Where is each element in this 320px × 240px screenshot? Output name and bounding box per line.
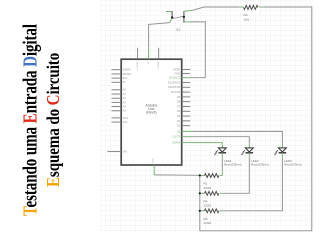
svg-text:Red (633nm): Red (633nm) xyxy=(251,162,269,166)
svg-text:RESET2: RESET2 xyxy=(136,62,138,71)
wire: S1 output down to U1 digital input pin xyxy=(190,22,205,78)
wire: R6 right lead down right side and along bottom to GND rail xyxy=(200,7,312,231)
svg-text:D10/SS: D10/SS xyxy=(171,90,180,94)
Arduino top pin labels (inside, rotated) xyxy=(136,62,160,71)
node: switch common xyxy=(171,16,173,18)
wire: LED2 cathode down and left to R4 right lead xyxy=(223,158,249,194)
title line 2 xyxy=(46,53,64,187)
Arduino right pin labels xyxy=(168,67,181,144)
svg-text:D6: D6 xyxy=(177,109,181,113)
wire: S1 output to R6 left lead xyxy=(193,7,240,10)
lever xyxy=(172,16,184,18)
wire: LED3 cathode down and left to R5 right lead xyxy=(223,158,282,211)
svg-text:AREF: AREF xyxy=(173,67,181,71)
switch S1 (SPDT) xyxy=(166,10,192,32)
wire: U1 pin to LED2 anode xyxy=(193,137,249,144)
wire: U1 pin to LED1 anode xyxy=(190,143,222,148)
right post top lead xyxy=(184,10,193,11)
svg-text:D9: D9 xyxy=(177,95,181,99)
unused throw lead xyxy=(166,11,172,13)
node: rail junction at R5 xyxy=(199,210,201,212)
svg-text:AREF2: AREF2 xyxy=(157,62,160,70)
node: switch output xyxy=(183,16,185,18)
svg-text:D3: D3 xyxy=(177,124,181,128)
svg-text:SCL: SCL xyxy=(123,120,129,124)
Arduino left pin labels xyxy=(123,68,132,154)
LED3 xyxy=(274,143,302,166)
resistor R1 xyxy=(200,174,223,190)
svg-text:D0/RX: D0/RX xyxy=(172,141,180,145)
left post xyxy=(171,11,173,17)
right post xyxy=(183,11,185,23)
svg-text:(Rev3): (Rev3) xyxy=(146,110,156,114)
LED1 xyxy=(214,148,242,167)
wire: LED1 cathode to R1 right lead xyxy=(221,158,223,176)
wire: U1 GND pin to GND rail xyxy=(154,174,200,176)
left post lead (to wire) xyxy=(170,18,172,23)
svg-text:220Ω: 220Ω xyxy=(204,186,212,190)
svg-text:RESET: RESET xyxy=(123,72,132,76)
svg-text:IOREF: IOREF xyxy=(123,68,132,72)
svg-text:D5: D5 xyxy=(177,114,181,118)
svg-text:D11/MOSI: D11/MOSI xyxy=(168,85,181,89)
svg-text:5V: 5V xyxy=(123,80,126,84)
svg-text:D2: D2 xyxy=(177,129,181,133)
svg-text:3V3: 3V3 xyxy=(123,76,128,80)
resistor R4 xyxy=(200,191,223,207)
right post bottom lead xyxy=(184,21,191,23)
svg-text:D12/MISO: D12/MISO xyxy=(168,80,181,84)
wire: U1 pin to LED3 anode xyxy=(193,131,282,143)
svg-text:Red (633nm): Red (633nm) xyxy=(224,162,242,166)
svg-text:220Ω: 220Ω xyxy=(204,221,212,225)
svg-text:A4: A4 xyxy=(123,105,127,109)
svg-text:VIN: VIN xyxy=(123,150,128,154)
svg-text:A0: A0 xyxy=(123,88,127,92)
resistor R6 xyxy=(239,5,263,21)
svg-text:D7: D7 xyxy=(177,104,181,108)
svg-text:D13/SCK: D13/SCK xyxy=(169,76,180,80)
Arduino connected right pins (green leads) xyxy=(182,78,193,143)
svg-text:1kΩ: 1kΩ xyxy=(244,17,250,21)
wire: GND rail vertical xyxy=(199,175,201,230)
svg-text:S1: S1 xyxy=(176,28,180,32)
svg-text:D1/TX: D1/TX xyxy=(173,135,181,139)
IC U1 Arduino Uno (Rev3) xyxy=(121,59,182,165)
Arduino right pins (digital) xyxy=(182,70,191,126)
Arduino left pins (power + analog) xyxy=(108,70,122,152)
svg-text:D4: D4 xyxy=(177,119,181,123)
svg-text:A3: A3 xyxy=(123,100,127,104)
svg-text:GND: GND xyxy=(174,72,180,76)
svg-text:D8: D8 xyxy=(177,100,181,104)
wire: S1 common to U1 top pin (5V) xyxy=(149,23,170,48)
svg-text:SDA: SDA xyxy=(123,116,129,120)
Arduino bottom pin (GND, green lead) xyxy=(153,165,155,175)
LED2 xyxy=(241,143,269,166)
svg-text:Red (633nm): Red (633nm) xyxy=(284,162,302,166)
Arduino bottom pin label (inside, rotated) xyxy=(152,158,154,163)
Arduino top pins xyxy=(138,48,159,59)
svg-text:A2: A2 xyxy=(123,96,127,100)
title line 1 xyxy=(22,24,42,216)
resistor R5 xyxy=(200,209,223,225)
svg-text:GND: GND xyxy=(152,158,154,163)
svg-text:A1: A1 xyxy=(123,92,127,96)
svg-text:220Ω: 220Ω xyxy=(204,204,212,208)
svg-text:A5: A5 xyxy=(123,109,127,113)
node: rail junction at R4 xyxy=(199,192,201,194)
node: rail junction at R1 xyxy=(199,174,201,176)
